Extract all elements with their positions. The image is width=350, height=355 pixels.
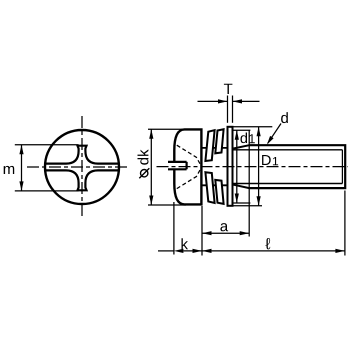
label l (script ell) <box>265 238 270 249</box>
d1 extension line bottom <box>233 202 250 204</box>
D1 dimension line <box>258 127 260 206</box>
label k <box>182 238 189 249</box>
d1 arrow up <box>235 130 239 140</box>
T extension line right <box>232 96 234 123</box>
vertical centerline of head top view <box>81 116 83 218</box>
pan head side view outline <box>174 129 201 204</box>
spring washer section top-left <box>205 130 214 161</box>
recess slot notch on head side view <box>168 162 187 169</box>
flat washer side view <box>228 127 233 206</box>
d1 arrow down <box>235 194 239 204</box>
spring washer section top-right <box>215 129 223 153</box>
d1 extension line top <box>233 129 250 131</box>
side view centerline <box>157 166 349 168</box>
dimension m arrow up <box>19 145 23 155</box>
label phi dk (rotated) <box>138 149 149 164</box>
dimension m line <box>21 145 23 191</box>
phillips recess cross outline bottom half <box>46 170 119 190</box>
dimension m extension line bottom <box>15 190 79 192</box>
d leader arrow <box>267 136 274 145</box>
label D1 <box>262 155 271 165</box>
spring washer section bottom-left <box>205 172 214 203</box>
dimension phi-dk arrow up <box>149 129 153 139</box>
D1 arrow up <box>257 127 261 137</box>
hidden recess line (dashed diagonal 1) <box>177 145 201 165</box>
D1 extension line bottom <box>233 205 262 207</box>
phillips recess cross outline top half <box>46 146 119 164</box>
l dimension line <box>202 250 345 252</box>
dimension m arrow down <box>19 181 23 191</box>
tip chamfer line <box>341 150 343 184</box>
a dimension line <box>202 232 249 234</box>
T dimension arrow right <box>233 100 260 102</box>
a arrow right <box>240 231 250 235</box>
shank blank lines between head and washer <box>203 147 228 149</box>
dimension phi-dk arrow down <box>149 196 153 206</box>
k dimension line left part <box>158 250 174 252</box>
l arrow right <box>335 249 345 253</box>
label m <box>4 166 15 174</box>
horizontal centerline of head top view <box>27 166 129 168</box>
l extension line right (tip) <box>344 191 346 256</box>
d leader line <box>268 124 281 144</box>
label d <box>281 112 288 123</box>
label T <box>224 84 233 94</box>
dimension m extension line top <box>15 144 79 146</box>
head top view circle <box>45 130 119 204</box>
thread root line bottom <box>233 183 342 185</box>
D1 extension line top (washer top extended) <box>233 126 272 128</box>
a extension line right <box>248 131 250 237</box>
T extension line left <box>227 96 229 123</box>
hidden recess line (dashed diagonal 2) <box>177 168 201 188</box>
spring washer section bottom-right <box>215 180 223 204</box>
thread runout taper bottom <box>234 185 250 188</box>
thread crest outline <box>249 145 345 188</box>
k extension line left (head apex) <box>173 202 175 255</box>
a arrow left <box>202 231 212 235</box>
dimension phi-dk line <box>150 129 152 205</box>
label a <box>220 223 228 231</box>
d1 dimension line <box>236 130 238 203</box>
dimension phi-dk extension line top <box>148 128 184 130</box>
T dimension arrow left <box>198 100 228 102</box>
thread root line top <box>233 149 342 151</box>
l arrow left <box>202 249 212 253</box>
k dimension line right part <box>183 250 202 252</box>
dimension phi-dk extension line bottom <box>148 204 186 206</box>
label d1 <box>241 133 248 144</box>
a/k/l shared extension line (bearing face) <box>201 206 203 256</box>
thread runout taper top <box>234 145 250 148</box>
D1 arrow down <box>257 196 261 206</box>
